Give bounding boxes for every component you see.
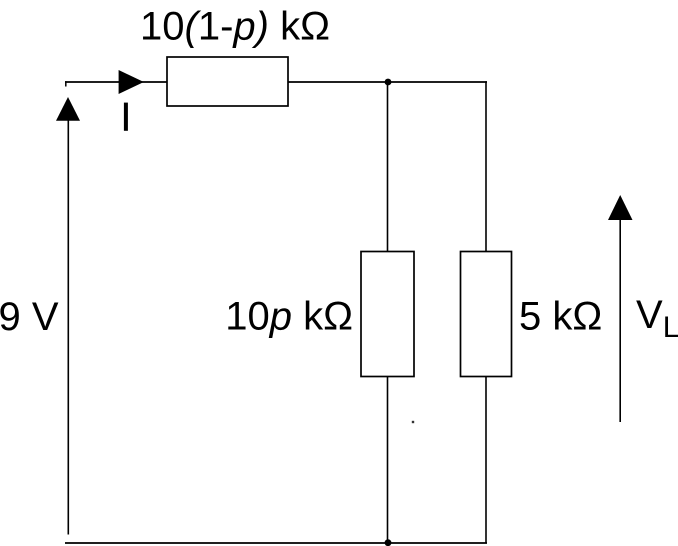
label I <box>124 103 128 131</box>
stray mark <box>412 421 414 423</box>
svg-text:10(1-p) kΩ: 10(1-p) kΩ <box>140 5 330 49</box>
wire: right branch upper segment <box>485 81 487 252</box>
source arrow head (9 V polarity, pointing up) <box>56 97 80 121</box>
svg-text:9 V: 9 V <box>0 295 59 339</box>
svg-text:10p kΩ: 10p kΩ <box>225 295 353 339</box>
current direction arrow (I) on top wire <box>119 70 144 94</box>
resistor R1 10(1-p) kΩ <box>167 57 288 106</box>
wire: small tick at left end of top wire <box>65 81 67 86</box>
svg-text:5 kΩ: 5 kΩ <box>519 295 602 339</box>
wire: middle branch upper segment <box>387 82 389 252</box>
wire: left source branch <box>67 120 69 535</box>
node: bottom junction <box>385 539 392 546</box>
wire: right branch lower segment <box>485 377 487 544</box>
VL reference arrow line <box>619 220 621 422</box>
wire: middle branch lower segment <box>387 377 389 544</box>
wire: top horizontal from source to right corner <box>65 81 487 83</box>
VL reference arrow head (pointing up) <box>608 195 633 220</box>
wire: bottom horizontal return <box>65 542 487 544</box>
node: top junction <box>385 79 392 86</box>
resistor R3 5 kΩ <box>461 252 512 377</box>
svg-text:VL: VL <box>636 293 678 344</box>
resistor R2 10p kΩ <box>361 252 414 377</box>
